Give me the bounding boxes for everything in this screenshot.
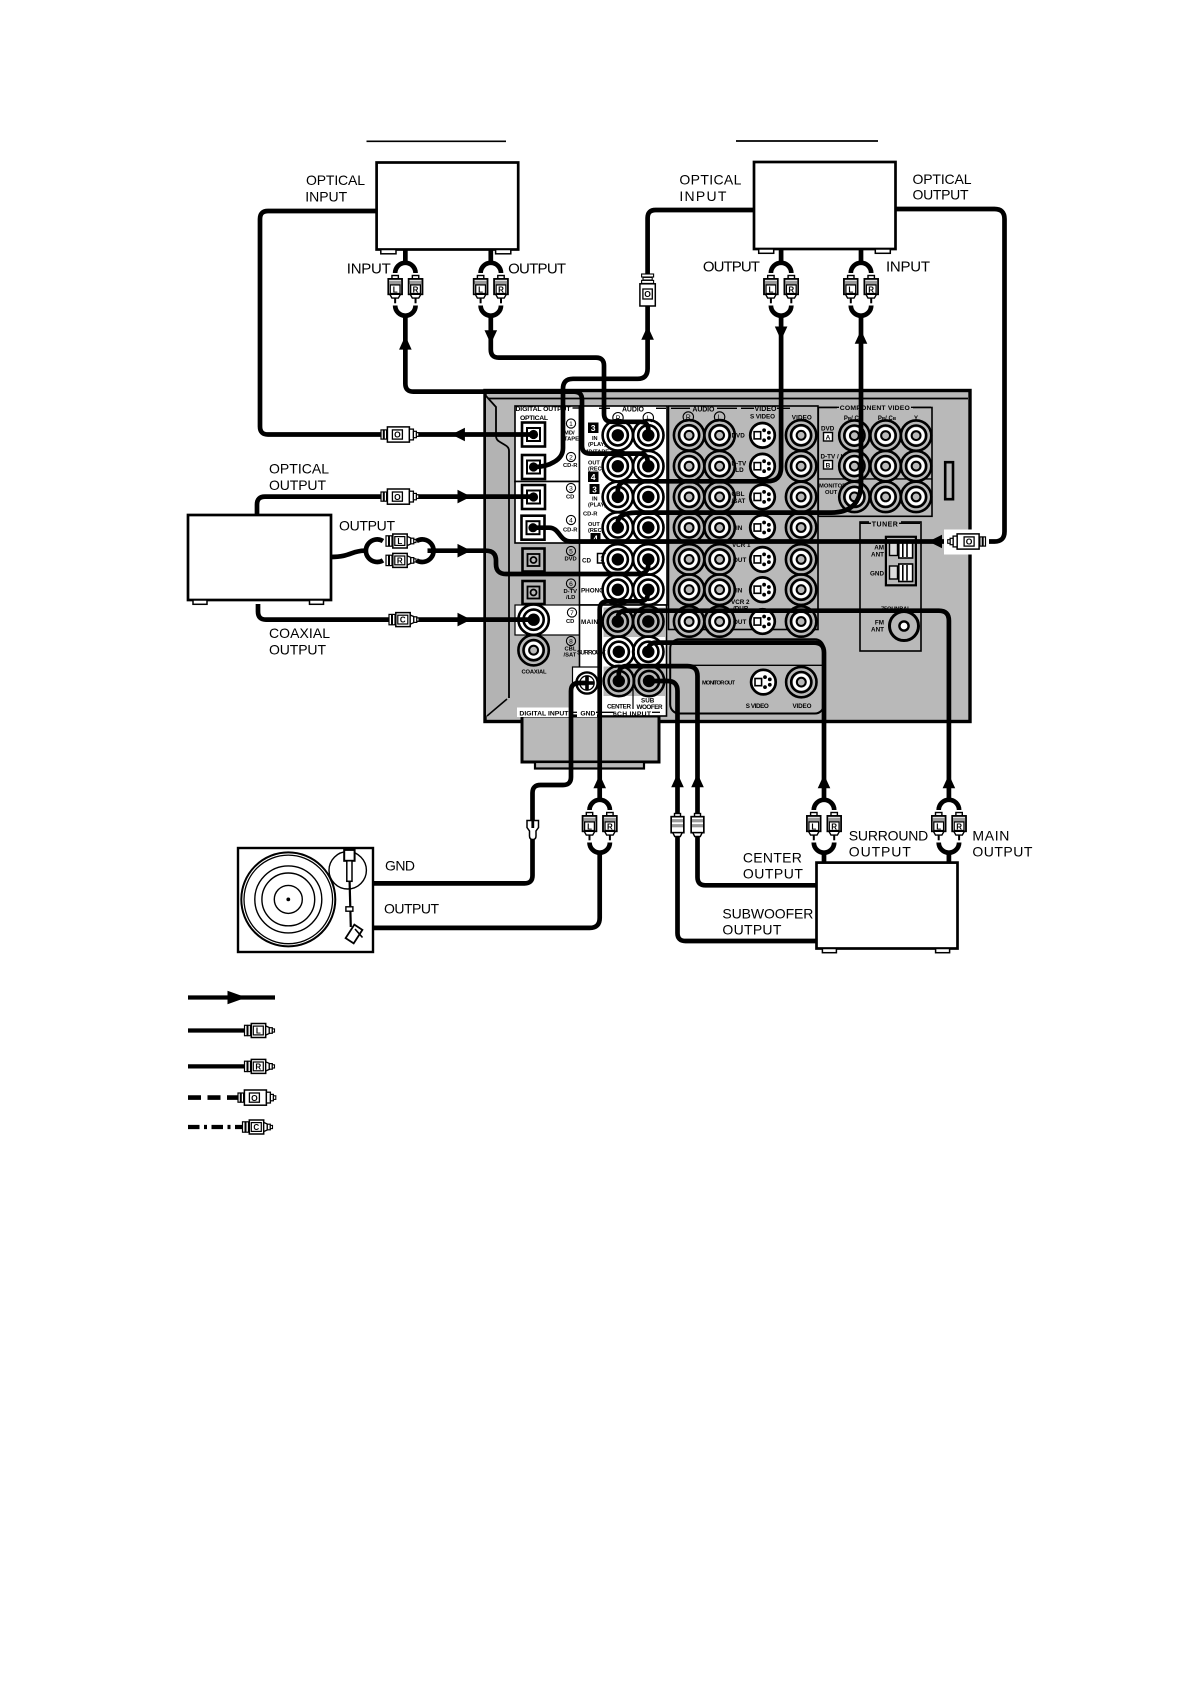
svg-text:VIDEO: VIDEO xyxy=(793,703,812,710)
svg-text:6CH INPUT: 6CH INPUT xyxy=(613,711,652,718)
svg-text:CD: CD xyxy=(566,495,574,501)
svg-text:GND: GND xyxy=(580,710,595,717)
label SURROUND OUTPUT xyxy=(849,827,929,859)
video row VCR1 OUT: audio R/L, s-video, video jacks xyxy=(674,544,816,574)
optical jack 5 DVD xyxy=(523,546,577,571)
video row VCR1 IN: audio R/L, s-video, video jacks xyxy=(674,512,816,542)
wire: optical cable digital output 2 to CD recorder optical input xyxy=(534,210,754,467)
svg-text:7: 7 xyxy=(570,610,574,617)
svg-text:OUT: OUT xyxy=(588,522,600,528)
coaxial jack 7 CD xyxy=(518,605,576,635)
video row CBL/SAT: audio R/L, s-video, video jacks xyxy=(674,482,816,512)
svg-text:OUT: OUT xyxy=(825,490,838,496)
svg-text:4: 4 xyxy=(591,472,596,482)
svg-text:TUNER: TUNER xyxy=(872,521,898,528)
svg-text:OPTICAL: OPTICAL xyxy=(520,415,548,422)
header: AUDIO (white column) xyxy=(599,406,666,423)
svg-text:OUTPUT: OUTPUT xyxy=(743,866,803,882)
svg-text:COAXIAL: COAXIAL xyxy=(269,625,330,641)
audio row 3: CD-R IN(PLAY) jacks xyxy=(588,482,664,512)
video row VCR2 IN: audio R/L, s-video, video jacks xyxy=(674,575,816,605)
svg-text:OPTICAL: OPTICAL xyxy=(679,171,741,187)
tuner section box xyxy=(860,522,921,651)
svg-text:CENTER: CENTER xyxy=(607,704,631,711)
svg-text:1: 1 xyxy=(569,421,573,428)
optical jack 4 CD-R xyxy=(522,515,579,539)
svg-text:OUTPUT: OUTPUT xyxy=(508,260,566,277)
wire: SURROUND output cable from decoder to SURROUND jacks xyxy=(648,643,841,863)
label MAIN OUTPUT xyxy=(972,827,1032,859)
legend: L audio cable xyxy=(188,1024,275,1038)
header: VIDEO xyxy=(741,406,812,421)
svg-text:CD: CD xyxy=(566,619,574,625)
label OPTICAL OUTPUT (CD player) xyxy=(269,461,329,493)
monitor out section box xyxy=(670,639,824,713)
AM ANT / GND terminal block xyxy=(870,537,916,586)
TUNER header xyxy=(860,520,920,529)
label COAXIAL OUTPUT (CD player) xyxy=(269,625,330,657)
label SUBWOOFER OUTPUT xyxy=(722,905,813,937)
svg-text:CD: CD xyxy=(582,557,592,564)
svg-text:GND: GND xyxy=(385,858,415,874)
optical jack 2 CD-R xyxy=(522,452,578,479)
svg-text:/LD: /LD xyxy=(566,595,575,601)
audio column box (tape/cdr rows) xyxy=(580,406,668,543)
component video section box xyxy=(818,408,932,517)
svg-text:MAIN: MAIN xyxy=(581,619,598,626)
svg-text:TAPE: TAPE xyxy=(564,437,579,443)
video row DVD: audio R/L, s-video, video jacks xyxy=(674,420,816,450)
audio row 4: CD-R OUT(REC) jacks xyxy=(588,512,664,543)
audio row 6: PHONO jacks xyxy=(581,575,664,605)
component video MONITOR OUT row xyxy=(819,482,931,512)
CD coaxial white strip (7) xyxy=(515,605,580,635)
svg-text:GND: GND xyxy=(870,571,884,578)
wire: CD player analog output cable to CD 1 jacks xyxy=(331,534,648,574)
svg-text:AUDIO: AUDIO xyxy=(622,406,645,413)
svg-text:OPTICAL: OPTICAL xyxy=(306,172,365,188)
svg-text:CD-R: CD-R xyxy=(563,528,578,534)
svg-text:OPTICAL: OPTICAL xyxy=(913,171,972,187)
svg-text:OUTPUT: OUTPUT xyxy=(384,901,439,917)
svg-text:OUTPUT: OUTPUT xyxy=(849,844,911,860)
wire: MAIN output cable from decoder to MAIN jacks xyxy=(618,611,966,863)
FM ANT jack xyxy=(871,612,918,641)
svg-text:B: B xyxy=(826,463,831,470)
svg-text:OUTPUT: OUTPUT xyxy=(269,641,326,657)
label CENTER OUTPUT xyxy=(743,849,803,881)
svg-text:PHONO: PHONO xyxy=(581,588,604,595)
svg-text:MAIN: MAIN xyxy=(972,827,1009,843)
svg-text:6: 6 xyxy=(569,581,573,588)
svg-text:INPUT: INPUT xyxy=(305,189,347,205)
mounting slot xyxy=(945,462,953,499)
receiver rear panel body xyxy=(485,391,970,722)
wire: turntable output cable to PHONO jacks xyxy=(373,590,648,928)
svg-text:VIDEO: VIDEO xyxy=(755,406,778,413)
wire: turntable ground wire to GND screw xyxy=(373,683,586,883)
audio row 2: MD/TAPE OUT(REC) jacks xyxy=(588,451,664,482)
component video DVD A row xyxy=(821,420,931,450)
svg-text:SUBWOOFER: SUBWOOFER xyxy=(722,905,813,921)
svg-text:5: 5 xyxy=(569,549,573,556)
turntable box xyxy=(238,848,373,952)
svg-text:INPUT: INPUT xyxy=(886,259,930,276)
svg-text:3: 3 xyxy=(591,423,596,433)
video row VCR2 OUT: audio R/L, s-video, video jacks xyxy=(674,606,816,636)
svg-text:S VIDEO: S VIDEO xyxy=(750,414,775,421)
svg-text:WOOFER: WOOFER xyxy=(637,704,663,711)
svg-text:OUTPUT: OUTPUT xyxy=(703,259,760,276)
header: AUDIO (gray column) xyxy=(671,406,737,422)
svg-text:DVD: DVD xyxy=(565,557,577,563)
svg-text:OUTPUT: OUTPUT xyxy=(913,186,969,202)
decoder amplifier box xyxy=(817,863,958,953)
title underline left device xyxy=(367,140,507,142)
svg-text:OUT: OUT xyxy=(733,619,746,626)
coaxial jack 8 CBL/SAT xyxy=(518,635,576,665)
MD/tape deck input L/R plug pair xyxy=(388,250,422,316)
svg-text:ANT: ANT xyxy=(871,626,884,633)
optical jack 1 MD/TAPE xyxy=(522,419,579,447)
wire: SUBWOOFER output cable from decoder to SUB WOOFER jack xyxy=(649,681,817,941)
monitor out s-video and video jacks xyxy=(702,667,817,710)
GND screw terminal xyxy=(573,667,599,715)
svg-text:OUTPUT: OUTPUT xyxy=(269,477,326,493)
svg-text:/SAT: /SAT xyxy=(732,498,746,505)
legend: signal direction arrow xyxy=(188,991,275,1004)
svg-text:OUTPUT: OUTPUT xyxy=(339,518,395,534)
CD recorder output L/R plug pair xyxy=(764,249,798,316)
VCR 2 /DUB row label xyxy=(731,599,750,613)
legend: R audio cable xyxy=(188,1059,275,1073)
wire: CENTER output cable from decoder to CENTER jack xyxy=(619,666,817,885)
audio row 1: MD/TAPE IN(PLAY) jacks xyxy=(588,420,664,450)
svg-text:INPUT: INPUT xyxy=(347,260,391,277)
video row D-TV/LD: audio R/L, s-video, video jacks xyxy=(674,451,816,481)
svg-text:CENTER: CENTER xyxy=(743,849,802,865)
audio row 9: CENTER / SUB WOOFER jacks (6ch input) xyxy=(604,666,665,711)
svg-text:COMPONENT VIDEO: COMPONENT VIDEO xyxy=(840,405,910,412)
svg-text:3: 3 xyxy=(592,485,597,494)
svg-text:OPTICAL: OPTICAL xyxy=(269,461,329,477)
audio row 7: MAIN jacks (6ch input) xyxy=(581,606,664,636)
svg-text:ANT: ANT xyxy=(871,551,884,558)
svg-text:INPUT: INPUT xyxy=(679,188,726,204)
audio column box (cd1/phono rows) xyxy=(580,543,668,605)
svg-text:/LD: /LD xyxy=(734,467,745,474)
optical jack 6 D-TV/LD xyxy=(523,579,578,604)
svg-text:OUTPUT: OUTPUT xyxy=(972,844,1032,860)
component video D-TV/LD B row xyxy=(821,451,932,481)
audio row 5: CD 1 jacks xyxy=(582,544,664,574)
wire: coaxial cable CD player to digital input 7 CD xyxy=(258,604,534,627)
svg-text:4: 4 xyxy=(569,518,573,525)
wire: optical cable digital output 1 to MD/tape deck optical input xyxy=(260,211,534,442)
optical jack 3 CD xyxy=(522,483,576,509)
legend: optical digital cable xyxy=(188,1090,276,1105)
svg-text:IN: IN xyxy=(592,436,598,442)
svg-text:DVD: DVD xyxy=(732,433,746,440)
wire: CD recorder input audio cable from CD-R OUT(REC) jacks xyxy=(618,314,868,528)
header: COMPONENT VIDEO xyxy=(819,403,931,422)
svg-text:CD-R: CD-R xyxy=(563,463,578,469)
wire: CD recorder output audio cable to CD-R IN(PLAY) jacks xyxy=(618,314,788,498)
header: DIGITAL OUTPUT xyxy=(516,406,580,422)
title underline right device xyxy=(736,140,878,142)
label OPTICAL INPUT (right device) xyxy=(679,171,741,204)
6ch input box xyxy=(580,605,667,716)
svg-text:3: 3 xyxy=(569,486,573,493)
svg-text:S VIDEO: S VIDEO xyxy=(746,703,769,710)
wire: MD/tape deck output audio cable to MD/TAPE IN(PLAY) jacks xyxy=(485,314,649,436)
CD player box xyxy=(188,515,331,604)
svg-text:COAXIAL: COAXIAL xyxy=(522,669,547,675)
svg-text:MONITOR OUT: MONITOR OUT xyxy=(702,681,735,687)
panel bottom extension block xyxy=(522,716,659,769)
MD/tape deck output L/R plug pair xyxy=(474,250,508,316)
audio row 8: SURROUND jacks (6ch input) xyxy=(577,637,664,667)
bottom edge labels DIGITAL INPUT / GND / 6CH INPUT xyxy=(517,708,660,718)
svg-text:8: 8 xyxy=(569,639,573,646)
svg-text:OUTPUT: OUTPUT xyxy=(722,922,781,938)
svg-text:DVD: DVD xyxy=(821,426,835,433)
svg-text:IN: IN xyxy=(736,587,743,594)
svg-text:IN: IN xyxy=(736,525,743,532)
wire: optical cable CD recorder optical output to digital input 4 xyxy=(533,209,1005,555)
digital section box (3,4) xyxy=(515,482,580,544)
video/audio2 section box xyxy=(669,406,819,630)
wire: MD/tape deck input audio cable to MD/TAPE OUT(REC) jacks xyxy=(399,314,648,467)
CD recorder input L/R plug pair xyxy=(844,249,878,316)
svg-text:2: 2 xyxy=(569,455,573,462)
svg-text:/SAT: /SAT xyxy=(564,653,577,659)
label OPTICAL INPUT (left device) xyxy=(305,172,365,204)
MD/tape deck box xyxy=(377,163,519,254)
svg-text:OUT: OUT xyxy=(733,557,746,564)
legend: coaxial digital cable xyxy=(188,1120,273,1134)
svg-text:CD-R: CD-R xyxy=(583,511,598,517)
wire: optical cable CD player optical output to digital output 3 xyxy=(257,489,534,515)
svg-text:OUT: OUT xyxy=(588,460,600,466)
DIGITAL OUTPUT section box (1,2) xyxy=(515,406,580,482)
svg-text:AUDIO: AUDIO xyxy=(692,406,715,413)
svg-text:DIGITAL INPUT: DIGITAL INPUT xyxy=(519,710,569,717)
svg-text:A: A xyxy=(826,435,831,442)
CD recorder box xyxy=(754,162,896,253)
label OPTICAL OUTPUT (right device) xyxy=(913,171,972,203)
svg-text:SURROUND: SURROUND xyxy=(849,827,929,843)
